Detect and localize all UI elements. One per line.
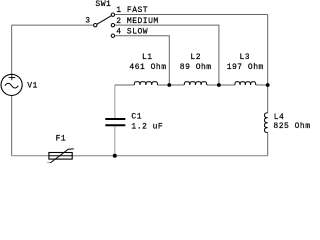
svg-text:197 Ohm: 197 Ohm	[227, 63, 264, 72]
node junction L1-L2	[167, 83, 171, 87]
inductor L3	[235, 82, 256, 85]
wire left vertical top (to V1)	[11, 25, 13, 74]
voltage source V1	[1, 74, 22, 95]
svg-text:461 Ohm: 461 Ohm	[129, 63, 166, 72]
node junction L3-L4-FAST	[266, 83, 270, 87]
svg-text:1.2 uF: 1.2 uF	[131, 123, 163, 132]
node junction L2-L3	[217, 83, 221, 87]
wire SLOW line and drop to middle rail	[115, 36, 170, 85]
svg-text:F1: F1	[56, 135, 67, 144]
wire middle rail between L2 and L3	[207, 84, 235, 86]
wire top-left horizontal to switch pole	[12, 24, 94, 26]
svg-text:3: 3	[85, 16, 90, 25]
switch SW1 throw 4 terminal	[111, 34, 114, 37]
wire C1 branch top	[114, 85, 116, 118]
switch SW1 throw 1 terminal	[111, 13, 114, 16]
node junction C1-bottom rail	[113, 154, 117, 158]
wire middle rail right of L3	[256, 84, 268, 86]
svg-text:SW1: SW1	[95, 0, 111, 9]
svg-text:1 FAST: 1 FAST	[116, 6, 148, 15]
switch SW1 arm	[97, 16, 112, 25]
inductor L1	[134, 82, 157, 85]
fuse F1	[47, 149, 74, 163]
wire C1 branch bottom	[114, 126, 116, 156]
wire right vertical (FAST line down to L4 top)	[267, 15, 269, 113]
switch SW1 throw 2 terminal	[111, 23, 114, 26]
svg-text:L4: L4	[274, 113, 285, 122]
wire left vertical bottom (V1 to bottom rail)	[11, 96, 13, 156]
svg-text:L1: L1	[142, 53, 153, 62]
wire middle rail between L1 and L2	[158, 84, 185, 86]
svg-text:825 Ohm: 825 Ohm	[273, 122, 310, 131]
svg-text:V1: V1	[27, 81, 38, 90]
wire bottom rail	[12, 155, 268, 157]
svg-text:C1: C1	[131, 113, 142, 122]
svg-text:L3: L3	[240, 53, 251, 62]
wire FAST line	[115, 14, 268, 16]
wire MEDIUM line and drop to L1-L2 junction	[115, 25, 219, 85]
inductor L4	[265, 113, 268, 133]
svg-text:89 Ohm: 89 Ohm	[180, 63, 212, 72]
capacitor C1	[105, 119, 125, 125]
wire right vertical (L4 bottom to rail)	[267, 133, 269, 156]
inductor L2	[184, 82, 207, 85]
wire middle rail segment left	[115, 84, 134, 86]
svg-text:L2: L2	[190, 53, 201, 62]
switch SW1 pole terminal 3	[94, 23, 97, 26]
svg-text:2 MEDIUM: 2 MEDIUM	[116, 17, 158, 26]
svg-text:4 SLOW: 4 SLOW	[116, 28, 148, 37]
